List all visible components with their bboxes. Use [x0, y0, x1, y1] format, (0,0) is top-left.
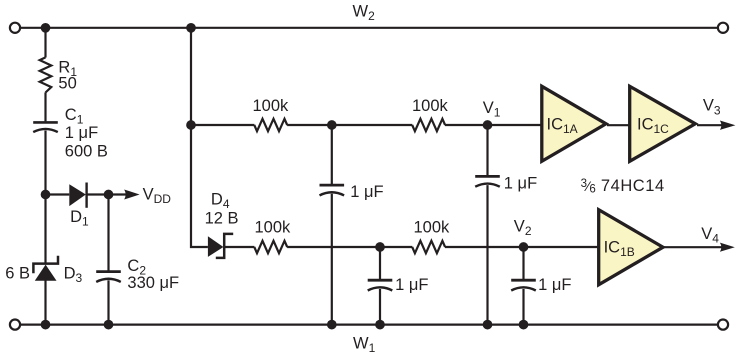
resistor 100k upper-2	[412, 119, 445, 131]
zener diode D3	[33, 256, 58, 281]
wire IC1C output	[697, 124, 728, 126]
wire cap line x331 upper	[331, 125, 333, 184]
wire lower row to node	[287, 246, 412, 248]
capacitor 1uF upper-left	[320, 185, 345, 195]
wire cap to bottom rail x487	[486, 185, 488, 325]
wire C2 to bottom rail	[107, 280, 109, 324]
node junction left at D1 anode	[41, 190, 51, 200]
svg-text:100k: 100k	[414, 219, 451, 237]
wire to node	[287, 124, 412, 126]
svg-text:1 μF: 1 μF	[65, 124, 98, 142]
capacitor 1uF lower-left	[368, 280, 393, 290]
terminal top-right	[718, 23, 728, 33]
capacitor C2	[96, 272, 121, 282]
svg-text:100k: 100k	[412, 97, 449, 115]
svg-text:1 μF: 1 μF	[350, 183, 383, 201]
wire upper oscillator row	[191, 124, 254, 126]
node junction top rail feed	[186, 23, 196, 33]
wire D1 cathode to VDD arrow	[87, 193, 127, 195]
resistor 100k lower-2	[412, 241, 445, 253]
op-amp (inverter) IC1C	[630, 86, 696, 161]
wire cap to bottom rail x523	[522, 289, 524, 325]
svg-text:100k: 100k	[253, 97, 290, 115]
capacitor C1	[33, 122, 58, 132]
resistor R1	[40, 57, 52, 92]
wire D1 anode	[46, 193, 70, 195]
svg-text:100k: 100k	[255, 219, 292, 237]
arrow V4	[720, 243, 735, 252]
wire C1 to node VDD row	[44, 131, 46, 195]
op-amp (inverter) IC1B	[599, 210, 663, 285]
node junction lower cap	[375, 242, 385, 252]
zener diode D4	[208, 234, 233, 258]
wire to V2 node	[445, 246, 598, 248]
wire IC1B output	[664, 246, 726, 248]
svg-text:1 μF: 1 μF	[395, 276, 428, 294]
wire cap line x487 upper	[486, 125, 488, 176]
arrow to VDD	[124, 190, 139, 200]
op-amp (inverter) IC1A	[542, 86, 606, 161]
node junction bottom x523	[519, 320, 529, 330]
diode D1	[69, 183, 86, 208]
svg-text:6 B: 6 B	[5, 264, 30, 282]
node junction bottom x487	[483, 320, 493, 330]
wire IC1A out to IC1C in	[607, 124, 631, 126]
resistor 100k lower-1	[254, 241, 287, 253]
node junction D3 bottom	[41, 320, 51, 330]
wire cap line x523	[522, 247, 524, 279]
wire cap to bottom rail x380	[379, 289, 381, 325]
terminal bottom-right	[718, 320, 728, 330]
wire node to C2	[107, 195, 109, 271]
wire cap line x380	[379, 247, 381, 279]
wire left branch top (top rail to R1)	[44, 28, 46, 58]
wire to V1 node	[445, 124, 541, 126]
node V1 junction	[483, 120, 493, 130]
svg-text:330 μF: 330 μF	[127, 274, 179, 292]
capacitor 1uF at V1	[475, 176, 500, 186]
node junction upper cap1	[327, 120, 337, 130]
wire W1 bottom rail	[20, 324, 719, 326]
terminal top-left	[10, 23, 20, 33]
svg-text:50: 50	[58, 75, 76, 93]
node junction upper wire feed	[186, 120, 196, 130]
node junction bottom x331	[327, 320, 337, 330]
capacitor 1uF at V2	[511, 280, 536, 290]
node junction bottom x380	[375, 320, 385, 330]
wire D3 to bottom rail	[44, 281, 46, 325]
resistor 100k upper-1	[254, 119, 287, 131]
node junction top rail left	[41, 23, 51, 33]
node junction C2 top	[104, 190, 114, 200]
wire R1 to C1	[44, 92, 46, 121]
wire left branch to D3	[44, 195, 46, 264]
svg-text:600 B: 600 B	[65, 143, 108, 161]
svg-text:12 B: 12 B	[205, 210, 239, 228]
svg-text:1 μF: 1 μF	[504, 175, 537, 193]
terminal bottom-left	[10, 320, 20, 330]
node junction C2 bottom	[104, 320, 114, 330]
node V2 junction	[519, 242, 529, 252]
arrow V3	[720, 121, 736, 130]
wire vertical feed line	[191, 28, 208, 247]
wire D4 to resistor	[225, 246, 254, 248]
svg-text:1 μF: 1 μF	[538, 276, 571, 294]
wire W2 top rail	[20, 27, 719, 29]
wire cap to bottom rail x331	[331, 194, 333, 325]
